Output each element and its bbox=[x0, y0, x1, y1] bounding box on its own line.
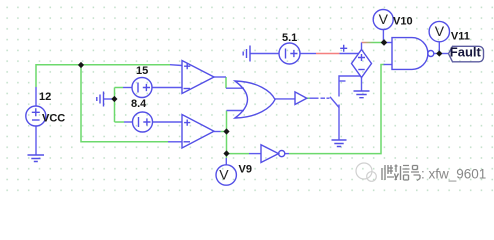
svg-text:8.4: 8.4 bbox=[131, 98, 147, 110]
svg-text:12: 12 bbox=[39, 91, 51, 103]
svg-text:5.1: 5.1 bbox=[282, 32, 297, 44]
svg-text:15: 15 bbox=[136, 65, 148, 77]
svg-text:V: V bbox=[219, 166, 229, 182]
svg-text:VCC: VCC bbox=[42, 113, 65, 125]
svg-text:V9: V9 bbox=[239, 164, 252, 176]
svg-text:: xfw_9601: : xfw_9601 bbox=[421, 167, 486, 182]
svg-text:V: V bbox=[435, 23, 445, 39]
svg-text:V10: V10 bbox=[393, 16, 413, 28]
svg-text:Fault: Fault bbox=[450, 45, 482, 60]
svg-text:V11: V11 bbox=[451, 30, 470, 42]
svg-text:V: V bbox=[379, 11, 389, 27]
